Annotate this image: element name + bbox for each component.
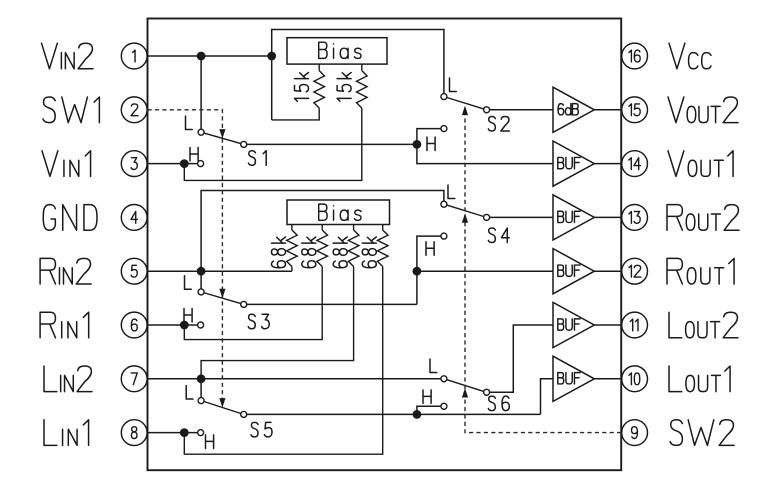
switch S6 H terminal bbox=[441, 403, 447, 409]
switch S4 common terminal bbox=[484, 214, 490, 220]
op-amp label BUF bbox=[558, 373, 580, 384]
wire S1 out to S2 H and BUF U2 bbox=[417, 129, 553, 164]
pin 10 circle bbox=[622, 366, 648, 392]
label S4 L bbox=[448, 185, 455, 199]
label S4 H bbox=[426, 242, 434, 256]
switch S6 L terminal bbox=[441, 376, 447, 382]
junction node S1 out bbox=[413, 140, 422, 149]
junction node VIN1 bbox=[180, 159, 189, 168]
junction node LIN1 bbox=[180, 428, 189, 437]
wire 15k R2 bottom bbox=[272, 108, 320, 120]
bias block B2 label bbox=[319, 204, 361, 220]
pin 3 circle bbox=[121, 151, 147, 177]
control arrow SW1 at S1 bbox=[219, 129, 225, 139]
label S3 H bbox=[184, 309, 192, 323]
wire S5 out to S6 H bbox=[417, 406, 441, 414]
label S5 H bbox=[206, 435, 214, 449]
switch S3 common terminal bbox=[241, 301, 247, 307]
switch S3 H terminal bbox=[198, 322, 204, 328]
label S2 H bbox=[427, 137, 435, 151]
pin label LOUT1 bbox=[669, 366, 730, 392]
resistor R2 15k bbox=[314, 71, 325, 109]
bias block B1 bbox=[287, 38, 387, 64]
pin number 16 bbox=[629, 50, 640, 62]
wire pin8 LIN1 bbox=[148, 432, 198, 434]
switch S1 common terminal bbox=[241, 141, 247, 147]
pin number 11 bbox=[630, 319, 638, 331]
wire BUF U7 input bbox=[541, 379, 554, 415]
pin 4 circle bbox=[121, 205, 147, 231]
wire S5 common out bbox=[247, 413, 541, 415]
label S4 bbox=[488, 228, 509, 243]
pin label VIN1 bbox=[42, 151, 91, 177]
resistor R7 68k lead bbox=[382, 225, 384, 231]
resistor R4 68k bottom lead bbox=[291, 267, 293, 272]
pin 13 circle bbox=[622, 205, 648, 231]
pin number 13 bbox=[629, 212, 640, 224]
wire U7 buffer output to pin bbox=[594, 378, 621, 380]
pin number 1 bbox=[133, 50, 135, 62]
pin 12 circle bbox=[622, 258, 648, 284]
switch S2 H terminal bbox=[441, 126, 447, 132]
label S6 bbox=[488, 396, 509, 411]
pin label VIN2 bbox=[42, 43, 94, 69]
switch S5 lever bbox=[204, 402, 241, 414]
pin 16 circle bbox=[622, 43, 648, 69]
label S1 bbox=[248, 151, 266, 166]
pin number 8 bbox=[131, 427, 137, 439]
pin 9 circle bbox=[622, 420, 648, 446]
control arrow SW2 at S4 bbox=[462, 213, 468, 223]
wire pin3 VIN1 bbox=[148, 163, 198, 165]
pin 14 circle bbox=[622, 151, 648, 177]
pin 2 circle bbox=[121, 97, 147, 123]
pin number 14 bbox=[629, 158, 640, 170]
wire U6 buffer output to pin bbox=[594, 324, 621, 326]
control net SW2 dashed bbox=[465, 108, 621, 433]
resistor R7 value 68k bbox=[362, 237, 376, 268]
bias block B1 label bbox=[319, 42, 361, 58]
pin label VOUT1 bbox=[668, 151, 733, 177]
wire S6 common to BUF U6 bbox=[490, 325, 553, 392]
control arrow SW1 at S5 bbox=[219, 398, 225, 408]
junction node VIN2/top route bbox=[267, 52, 276, 61]
pin 1 circle bbox=[121, 43, 147, 69]
op-amp U7 buffer bbox=[553, 356, 594, 401]
resistor R5 68k lead bbox=[321, 225, 323, 231]
wire LIN2 to 68k R6 bottom bbox=[201, 267, 354, 379]
op-amp label 6dB bbox=[558, 104, 578, 115]
resistor R5 68k bbox=[317, 230, 328, 267]
op-amp U1 6dB amp bbox=[553, 87, 594, 132]
pin label ROUT2 bbox=[667, 205, 739, 231]
pin label GND bbox=[43, 205, 97, 231]
junction node LIN2 bbox=[197, 374, 206, 383]
pin label LIN1 bbox=[44, 420, 89, 446]
wire U1 6dB amp output to pin bbox=[594, 109, 621, 111]
pin 7 circle bbox=[121, 366, 147, 392]
control arrow SW2 at S6 bbox=[462, 388, 468, 398]
junction node S3 out bbox=[413, 267, 422, 276]
resistor R3 value 15k bbox=[337, 73, 351, 102]
pin number 12 bbox=[629, 265, 641, 277]
pin label SW1 bbox=[43, 97, 99, 123]
op-amp U2 buffer bbox=[553, 141, 594, 186]
resistor R3 15k lead bbox=[361, 64, 363, 71]
pin 8 circle bbox=[121, 420, 147, 446]
switch S4 H terminal bbox=[441, 233, 447, 239]
wire VIN1 to 15k R3 bottom bbox=[184, 108, 361, 180]
wire S3 out to S4 H and BUF U5 bbox=[417, 236, 441, 304]
control arrow SW2 at S2 bbox=[462, 106, 468, 116]
pin label SW2 bbox=[670, 420, 734, 446]
switch S1 H terminal bbox=[198, 161, 204, 167]
switch S2 L terminal bbox=[441, 94, 447, 100]
op-amp label BUF bbox=[558, 157, 580, 168]
wire S1 common out bbox=[247, 143, 417, 145]
wire U2 buffer output to pin bbox=[594, 163, 621, 165]
pin number 5 bbox=[131, 265, 137, 277]
op-amp U6 buffer bbox=[553, 302, 594, 347]
switch S1 L terminal bbox=[198, 129, 204, 135]
wire pin1 VIN2 bbox=[148, 55, 272, 57]
pin number 2 bbox=[131, 104, 138, 116]
wire LIN1 to 68k R7 bottom bbox=[184, 267, 382, 455]
resistor R4 value 68k bbox=[272, 237, 286, 268]
wire S4 common to BUF U4 bbox=[490, 216, 553, 218]
pin label VCC bbox=[669, 43, 711, 69]
junction node VIN2/S1 bbox=[197, 52, 206, 61]
pin 15 circle bbox=[622, 97, 648, 123]
label S2 L bbox=[450, 78, 457, 92]
op-amp U4 buffer bbox=[553, 195, 594, 240]
op-amp label BUF bbox=[558, 211, 580, 222]
pin number 7 bbox=[131, 373, 137, 385]
pin 6 circle bbox=[121, 312, 147, 338]
switch S5 L terminal bbox=[198, 398, 204, 404]
switch S2 common terminal bbox=[484, 107, 490, 113]
pin number 3 bbox=[131, 158, 137, 170]
label S5 L bbox=[186, 386, 193, 400]
wire RIN1 to 68k R5 bottom bbox=[184, 267, 322, 340]
label S3 L bbox=[185, 276, 192, 290]
pin label VOUT2 bbox=[668, 97, 738, 123]
IC outline box bbox=[148, 19, 622, 471]
resistor R2 15k lead bbox=[318, 64, 320, 71]
switch S2 lever bbox=[447, 97, 484, 108]
label S5 bbox=[251, 422, 272, 437]
pin 11 circle bbox=[622, 312, 648, 338]
resistor R3 15k bbox=[357, 71, 368, 109]
resistor R5 value 68k bbox=[302, 237, 316, 268]
pin number 6 bbox=[131, 319, 137, 331]
switch S3 lever bbox=[204, 293, 241, 304]
control arrow SW1 at S3 bbox=[219, 289, 225, 299]
pin label LIN2 bbox=[44, 366, 92, 392]
switch S5 H terminal bbox=[198, 430, 204, 436]
resistor R4 68k lead bbox=[291, 225, 293, 231]
resistor R6 68k bbox=[348, 230, 359, 267]
label S1 H bbox=[190, 148, 198, 162]
wire BUF U5 input bbox=[417, 270, 553, 272]
op-amp label BUF bbox=[558, 265, 580, 276]
wire S3 common out bbox=[247, 303, 417, 305]
label S6 L bbox=[430, 359, 437, 373]
wire U4 buffer output to pin bbox=[594, 216, 621, 218]
label S3 bbox=[248, 314, 269, 329]
junction node S5 out bbox=[413, 410, 422, 419]
pin label ROUT1 bbox=[667, 258, 734, 284]
wire pin5 RIN2 bbox=[148, 270, 292, 272]
wire RIN2 to S3 L bbox=[200, 271, 202, 289]
pin number 15 bbox=[629, 104, 640, 116]
pin 5 circle bbox=[121, 258, 147, 284]
wire VIN2 top route to S2 L bbox=[272, 30, 444, 120]
wire U5 buffer output to pin bbox=[594, 270, 621, 272]
label S1 L bbox=[186, 116, 193, 130]
label S6 H bbox=[423, 390, 431, 404]
pin number 9 bbox=[632, 427, 638, 439]
pin label RIN2 bbox=[40, 258, 91, 284]
junction node RIN1 bbox=[180, 321, 189, 330]
resistor R2 value 15k bbox=[295, 73, 309, 102]
switch S4 L terminal bbox=[441, 201, 447, 207]
wire LIN2 to S5 L bbox=[200, 379, 202, 398]
op-amp label BUF bbox=[558, 319, 580, 330]
wire VIN2 to S1 L bbox=[200, 56, 202, 129]
wire pin6 RIN1 bbox=[148, 324, 198, 326]
resistor R6 68k lead bbox=[353, 225, 355, 231]
pin label LOUT2 bbox=[669, 312, 738, 338]
switch S3 L terminal bbox=[198, 289, 204, 295]
pin label RIN1 bbox=[40, 312, 89, 338]
wire RIN2 up route to S4 L bbox=[201, 191, 444, 272]
wire pin7 LIN2 bbox=[148, 378, 441, 380]
op-amp U5 buffer bbox=[553, 249, 594, 294]
switch S6 common terminal bbox=[484, 389, 490, 395]
switch S5 common terminal bbox=[241, 411, 247, 417]
switch S1 lever bbox=[204, 133, 241, 144]
switch S4 lever bbox=[447, 205, 484, 216]
junction node RIN2 bbox=[197, 267, 206, 276]
resistor R7 68k bbox=[377, 230, 388, 267]
resistor R6 value 68k bbox=[333, 237, 347, 268]
wire S2 common to 6dB amp bbox=[490, 109, 553, 111]
bias block B2 bbox=[287, 200, 390, 225]
pin number 4 bbox=[131, 212, 137, 224]
resistor R4 68k bbox=[287, 230, 298, 267]
control net SW1 dashed bbox=[148, 110, 223, 405]
pin number 10 bbox=[629, 373, 640, 385]
label S2 bbox=[488, 117, 509, 132]
switch S6 lever bbox=[447, 380, 484, 392]
